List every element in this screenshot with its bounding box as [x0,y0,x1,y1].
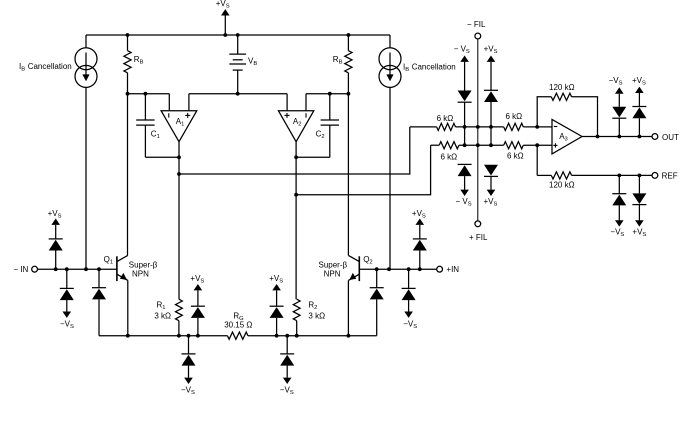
wire Q2 emitter to rail [347,280,349,335]
node top rail junctions [126,33,351,37]
wire RB-right node down to Q2 collector [347,94,349,256]
diode clamp -Vs at rail left [181,336,196,397]
wire A3 feedback loop [537,97,597,137]
label 6 kOhm bottom-left [441,152,458,161]
svg-text:120 kΩ: 120 kΩ [549,181,575,190]
diode clamp +Vs at +IN [412,209,427,269]
diode strand -Vs clamp x=464.6 [454,44,472,207]
svg-text:Cancellation: Cancellation [28,62,72,71]
resistor R1 [176,299,183,336]
label 6 kOhm top-left [437,114,454,123]
label R2 3k [308,301,325,321]
resistor RG [227,332,248,339]
op-amp A1 [161,94,197,142]
resistor 6k top-right [504,123,552,130]
svg-text:120 kΩ: 120 kΩ [549,83,575,92]
label C1 [151,129,160,140]
svg-text:REF: REF [662,171,678,180]
label C2 [316,129,325,140]
label 6 kOhm top-right [506,112,523,121]
svg-text:+IN: +IN [446,265,459,274]
diode clamp -Vs at OUT [609,76,627,137]
wire emitter rail left [99,335,227,337]
wire -IN node row [38,267,117,271]
label IB Cancellation left [19,62,72,73]
node bottom row junctions [463,143,539,147]
svg-text:NPN: NPN [324,270,341,279]
capacitor C1 [136,94,179,158]
current source IB cancellation left [75,35,97,87]
svg-text:3 kΩ: 3 kΩ [308,311,325,320]
label VB [248,56,257,67]
wire A1 output to top 6k row [179,127,410,174]
resistor 6k bottom-right [504,142,552,149]
diode clamp +Vs at REF [632,175,646,238]
label R1 3k [154,301,171,321]
svg-text:OUT: OUT [662,133,679,142]
battery VB [229,35,246,94]
svg-text:6 kΩ: 6 kΩ [507,151,524,160]
svg-text:Cancellation: Cancellation [412,63,456,72]
terminal -IN [13,265,37,274]
svg-text:Super-β: Super-β [129,261,158,270]
terminal REF [652,171,678,180]
svg-text:− FIL: − FIL [467,20,486,29]
wire battery node to A1 and A2 noninverting inputs [189,92,287,96]
diode strand +Vs clamp x=491 [484,44,499,207]
diode clamp -Vs at +IN [402,269,418,330]
resistor 120k feedback [551,93,571,100]
svg-text:6 kΩ: 6 kΩ [441,152,458,161]
svg-text:+ FIL: + FIL [469,233,488,242]
op-amp A2 [278,94,313,142]
label Q2 [363,255,372,266]
label 120 kOhm top [549,83,575,92]
capacitor C2 [296,94,339,158]
wire A3 noninverting to REF resistor [537,145,551,175]
node top row junctions [463,125,539,129]
label Super-beta NPN left [129,261,158,279]
power +Vs arrow top [216,0,230,35]
diode clamp +Vs at rail right [269,274,283,336]
wire RB-left node down to Q1 collector [127,94,129,256]
svg-text:− IN: − IN [13,265,28,274]
svg-text:3 kΩ: 3 kΩ [154,311,171,320]
wire REF row [572,174,653,178]
wire A2 inverting input to RB-right node [306,92,350,96]
label Q1 [104,255,113,266]
label 120 kOhm bottom [549,181,575,190]
svg-text:30.15 Ω: 30.15 Ω [224,321,252,330]
wire RB-left node to A1 inverting input [126,92,170,96]
label RB right [333,55,343,66]
terminal OUT [652,133,679,142]
svg-text:6 kΩ: 6 kΩ [437,114,454,123]
resistor 6k bottom-left [431,142,504,149]
terminal +IN [437,265,460,274]
label RG 30.15 [224,311,252,329]
resistor RB right [345,35,352,94]
svg-text:6 kΩ: 6 kΩ [506,112,523,121]
label IB Cancellation right [403,63,456,74]
diode clamp -Vs at REF [610,175,626,238]
svg-text:NPN: NPN [132,270,149,279]
current source IB cancellation right [379,35,401,87]
op-amp A3 [552,119,582,153]
wire emitter rail right [248,335,377,337]
transistor Q2 super-beta NPN [348,255,359,281]
diode clamp +Vs at OUT [632,76,646,137]
wire A2 output to bottom 6k row [296,145,431,195]
diode clamp -Vs at rail right [280,336,294,397]
diode -IN node to emitter rail [92,269,106,336]
diode +IN node to emitter rail [370,269,384,336]
resistor R2 [293,299,300,336]
label RB left [134,55,144,66]
label Super-beta NPN right [319,261,348,279]
svg-text:Super-β: Super-β [319,261,348,270]
diode clamp +Vs at rail left [190,274,205,336]
terminal -FIL [467,20,486,39]
wire A3 output to OUT terminal [582,135,652,139]
wire top supply rail [86,34,390,36]
wire +IN node row [359,267,437,271]
resistor 6k top-left [410,123,504,130]
wire FIL line [477,39,479,221]
wire left current source to -IN node [85,87,87,269]
terminal +FIL [469,221,488,242]
node emitter rail junctions [126,334,350,338]
transistor Q1 super-beta NPN [117,255,128,281]
wire A2 output down to R2 [294,142,298,300]
wire A1 output down to R1 [177,142,181,300]
diode clamp -Vs at -IN [60,269,74,330]
diode clamp +Vs at -IN [48,209,63,269]
label 6 kOhm bottom-right [507,151,524,160]
resistor 120k bottom [551,172,571,179]
wire right current source to +IN node [389,87,391,269]
wire Q1 emitter to rail [127,280,129,335]
resistor RB left [124,35,131,94]
